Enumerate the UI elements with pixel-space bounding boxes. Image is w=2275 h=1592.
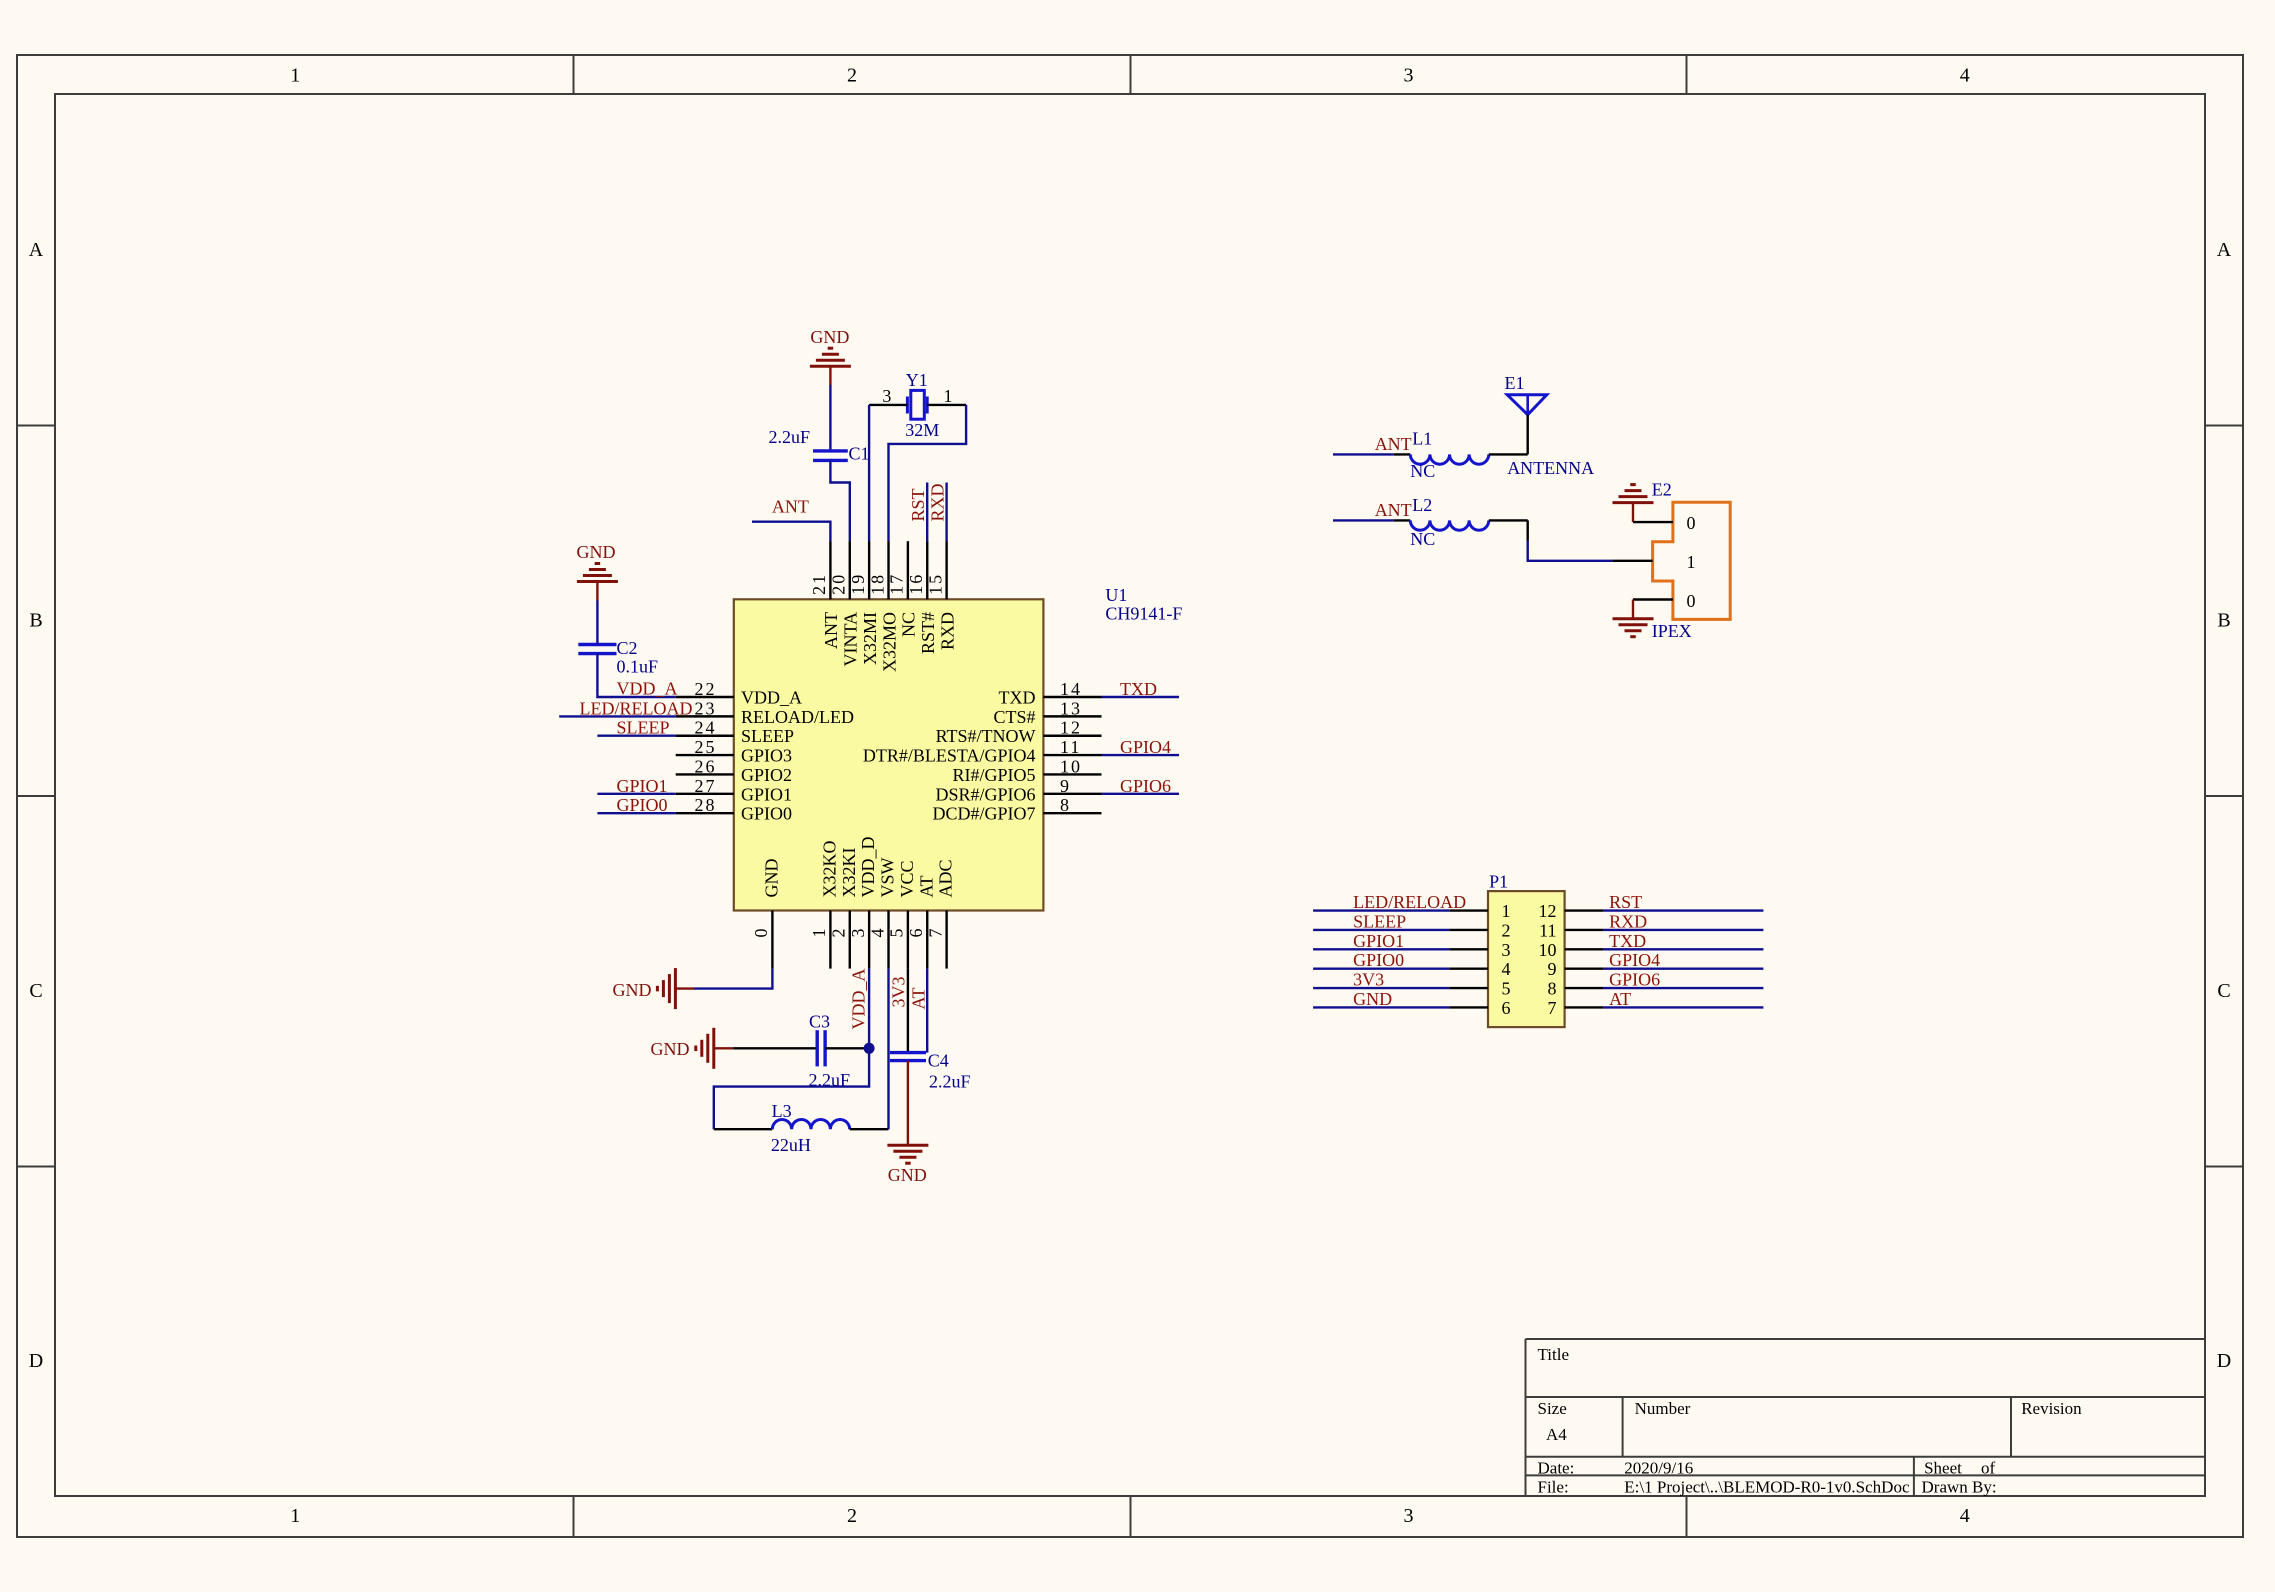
svg-text:17: 17 bbox=[887, 573, 907, 595]
wire C2 to U1 pin 22 (VDD_A) bbox=[597, 654, 675, 697]
svg-text:3: 3 bbox=[1502, 940, 1511, 960]
P1 pin 5 bbox=[1449, 979, 1510, 999]
connector P1 bbox=[1488, 872, 1565, 1028]
svg-text:GND: GND bbox=[613, 980, 652, 1000]
svg-text:GPIO1: GPIO1 bbox=[1353, 931, 1404, 951]
svg-text:Number: Number bbox=[1635, 1399, 1691, 1418]
svg-text:D: D bbox=[2217, 1350, 2231, 1372]
svg-text:C2: C2 bbox=[617, 638, 638, 658]
svg-text:14: 14 bbox=[1060, 679, 1082, 699]
svg-text:RST#: RST# bbox=[918, 612, 938, 654]
wire ANT net to U1 pin 21 bbox=[752, 522, 830, 542]
wire L2 to E2 pin 1 bbox=[1528, 541, 1613, 561]
svg-text:16: 16 bbox=[906, 573, 926, 595]
wire GPIO1 to U1 pin 27 bbox=[597, 793, 675, 795]
wire junction down to L3 left bbox=[714, 1048, 869, 1129]
svg-text:Size: Size bbox=[1538, 1399, 1567, 1418]
svg-text:NC: NC bbox=[899, 612, 919, 637]
svg-text:File:: File: bbox=[1538, 1478, 1569, 1497]
svg-text:SLEEP: SLEEP bbox=[617, 718, 670, 738]
svg-text:X32KO: X32KO bbox=[819, 841, 839, 898]
U1 pin 2 (X32KI) bbox=[829, 848, 859, 969]
svg-text:10: 10 bbox=[1539, 940, 1557, 960]
svg-text:8: 8 bbox=[1060, 795, 1071, 815]
svg-text:2.2uF: 2.2uF bbox=[768, 427, 810, 447]
capacitor C4 bbox=[890, 1050, 971, 1091]
E2 pin 0 (top) bbox=[1633, 513, 1696, 533]
svg-text:ANT: ANT bbox=[821, 612, 841, 649]
ground (at U1 pin 0) bbox=[613, 968, 695, 1009]
inductor L1 bbox=[1394, 429, 1528, 481]
svg-text:CH9141-F: CH9141-F bbox=[1105, 604, 1182, 624]
svg-text:0: 0 bbox=[1687, 513, 1696, 533]
wire GND to C3 left bbox=[733, 1047, 817, 1049]
svg-text:B: B bbox=[2217, 610, 2230, 632]
svg-text:C4: C4 bbox=[928, 1050, 949, 1070]
svg-text:19: 19 bbox=[848, 573, 868, 595]
U1 pin 3 (VDD_D) bbox=[848, 837, 878, 969]
svg-text:RXD: RXD bbox=[927, 483, 947, 521]
wire RST to U1 pin 16 bbox=[926, 483, 928, 542]
svg-text:RI#/GPIO5: RI#/GPIO5 bbox=[952, 765, 1035, 785]
svg-text:AT: AT bbox=[909, 987, 929, 1009]
svg-text:20: 20 bbox=[829, 573, 849, 595]
svg-text:GPIO0: GPIO0 bbox=[617, 795, 668, 815]
svg-text:GPIO4: GPIO4 bbox=[1609, 950, 1660, 970]
svg-text:ANTENNA: ANTENNA bbox=[1507, 458, 1594, 478]
wire 3V3 to P1 pin 5 bbox=[1313, 987, 1449, 989]
svg-text:28: 28 bbox=[695, 795, 717, 815]
P1 pin 4 bbox=[1449, 959, 1510, 979]
wire RXD from P1 pin 11 bbox=[1603, 929, 1763, 931]
U1 pin 0 (GND) bbox=[751, 859, 781, 969]
svg-text:GPIO0: GPIO0 bbox=[741, 804, 792, 824]
capacitor C1 bbox=[768, 427, 869, 464]
P1 pin 3 bbox=[1449, 940, 1510, 960]
wire GND to C2 bbox=[596, 601, 598, 645]
junction bbox=[864, 1043, 875, 1054]
svg-text:GND: GND bbox=[1353, 989, 1392, 1009]
wire GPIO6 from U1 pin 9 bbox=[1102, 793, 1180, 795]
svg-text:3V3: 3V3 bbox=[889, 977, 909, 1008]
svg-text:GND: GND bbox=[810, 327, 849, 347]
svg-text:GPIO6: GPIO6 bbox=[1120, 776, 1171, 796]
svg-text:23: 23 bbox=[695, 698, 717, 718]
wire U1 pin 3 (VDD_D) down to node bbox=[868, 969, 870, 1049]
U1 pin 18 (X32MO) bbox=[867, 541, 899, 672]
ground (E2) bbox=[1613, 480, 1672, 523]
wire ANT to L2 bbox=[1333, 519, 1394, 521]
svg-text:L1: L1 bbox=[1412, 429, 1432, 449]
U1 pin 15 (RXD) bbox=[925, 541, 957, 650]
svg-text:Y1: Y1 bbox=[906, 370, 928, 390]
svg-text:12: 12 bbox=[1539, 901, 1557, 921]
svg-text:RXD: RXD bbox=[1609, 911, 1647, 931]
svg-text:AT: AT bbox=[1609, 989, 1631, 1009]
svg-text:NC: NC bbox=[1410, 529, 1435, 549]
svg-text:2: 2 bbox=[847, 1505, 857, 1527]
svg-text:VINTA: VINTA bbox=[841, 612, 861, 667]
svg-text:10: 10 bbox=[1060, 756, 1082, 776]
svg-text:Title: Title bbox=[1538, 1345, 1570, 1364]
U1 pin 27 (GPIO1) bbox=[676, 776, 792, 805]
ground (IPEX) bbox=[1613, 600, 1692, 642]
U1 pin 9 (DSR#/GPIO6) bbox=[935, 776, 1101, 805]
svg-text:VDD_A: VDD_A bbox=[849, 969, 869, 1030]
wire C3 right to junction bbox=[825, 1047, 869, 1049]
svg-text:Revision: Revision bbox=[2021, 1399, 2082, 1418]
svg-text:GND: GND bbox=[888, 1165, 927, 1185]
U1 pin 8 (DCD#/GPIO7) bbox=[932, 795, 1101, 824]
svg-text:C: C bbox=[29, 980, 42, 1002]
U1 pin 5 (VCC) bbox=[887, 860, 917, 968]
U1 pin 10 (RI#/GPIO5) bbox=[952, 756, 1101, 785]
svg-text:VDD_A: VDD_A bbox=[617, 679, 678, 699]
svg-text:GPIO4: GPIO4 bbox=[1120, 737, 1171, 757]
wire TXD from U1 pin 14 bbox=[1102, 696, 1180, 698]
svg-text:D: D bbox=[29, 1350, 43, 1372]
svg-text:A: A bbox=[2217, 239, 2232, 261]
U1 pin 21 (ANT) bbox=[809, 541, 841, 649]
svg-text:IPEX: IPEX bbox=[1652, 621, 1692, 641]
P1 pin 12 bbox=[1539, 901, 1604, 921]
connector E2 (IPEX) bbox=[1653, 502, 1731, 619]
svg-text:GPIO0: GPIO0 bbox=[1353, 950, 1404, 970]
svg-text:RELOAD/LED: RELOAD/LED bbox=[741, 707, 854, 727]
svg-text:ADC: ADC bbox=[936, 859, 956, 897]
svg-text:C3: C3 bbox=[809, 1012, 830, 1032]
wire C1 to U1 pin 20 bbox=[830, 460, 849, 541]
svg-text:RST: RST bbox=[1609, 892, 1642, 912]
svg-text:A: A bbox=[29, 239, 44, 261]
svg-text:Sheet: Sheet bbox=[1924, 1459, 1962, 1478]
wire GPIO0 to U1 pin 28 bbox=[597, 812, 675, 814]
svg-text:GND: GND bbox=[761, 859, 781, 898]
U1 pin 13 (CTS#) bbox=[993, 698, 1101, 727]
svg-text:7: 7 bbox=[1548, 998, 1557, 1018]
P1 pin 2 bbox=[1449, 920, 1510, 940]
svg-text:6: 6 bbox=[906, 927, 926, 938]
svg-text:GPIO1: GPIO1 bbox=[617, 776, 668, 796]
svg-text:VDD_A: VDD_A bbox=[741, 688, 802, 708]
svg-text:U1: U1 bbox=[1105, 585, 1127, 605]
svg-text:2: 2 bbox=[829, 927, 849, 938]
svg-text:GND: GND bbox=[651, 1039, 690, 1059]
svg-text:DCD#/GPIO7: DCD#/GPIO7 bbox=[932, 804, 1035, 824]
wire GPIO6 from P1 pin 8 bbox=[1603, 987, 1763, 989]
svg-text:0.1uF: 0.1uF bbox=[617, 656, 659, 676]
wire U1 pin 0 GND bbox=[694, 969, 772, 989]
inductor L2 bbox=[1394, 495, 1528, 549]
U1 pin 28 (GPIO0) bbox=[676, 795, 792, 824]
wire GPIO1 to P1 pin 3 bbox=[1313, 948, 1449, 950]
svg-text:11: 11 bbox=[1060, 737, 1081, 757]
svg-text:AT: AT bbox=[916, 875, 936, 897]
U1 pin 19 (X32MI) bbox=[848, 541, 880, 665]
svg-text:3: 3 bbox=[848, 927, 868, 938]
svg-text:DTR#/BLESTA/GPIO4: DTR#/BLESTA/GPIO4 bbox=[863, 746, 1036, 766]
svg-text:3: 3 bbox=[1404, 65, 1414, 87]
svg-text:18: 18 bbox=[867, 573, 887, 595]
svg-text:GPIO3: GPIO3 bbox=[741, 746, 792, 766]
P1 pin 9 bbox=[1548, 959, 1604, 979]
svg-text:L3: L3 bbox=[772, 1101, 792, 1121]
svg-text:1: 1 bbox=[944, 386, 953, 406]
svg-text:11: 11 bbox=[1539, 920, 1556, 940]
wire ANT to L1 bbox=[1333, 453, 1394, 455]
svg-text:CTS#: CTS# bbox=[993, 707, 1035, 727]
P1 pin 7 bbox=[1548, 998, 1604, 1018]
svg-text:TXD: TXD bbox=[1609, 931, 1646, 951]
svg-text:4: 4 bbox=[1502, 959, 1511, 979]
svg-text:2: 2 bbox=[847, 65, 857, 87]
svg-text:ANT: ANT bbox=[1375, 500, 1412, 520]
U1 pin 20 (VINTA) bbox=[829, 541, 861, 666]
svg-text:3: 3 bbox=[882, 386, 891, 406]
svg-text:SLEEP: SLEEP bbox=[741, 726, 794, 746]
wire GND to P1 pin 6 bbox=[1313, 1006, 1449, 1008]
svg-text:13: 13 bbox=[1060, 698, 1082, 718]
U1 pin 12 (RTS#/TNOW) bbox=[936, 718, 1102, 747]
svg-text:VSW: VSW bbox=[878, 857, 898, 897]
wire AT from P1 pin 7 bbox=[1603, 1006, 1763, 1008]
svg-text:32M: 32M bbox=[905, 420, 939, 440]
antenna E1 bbox=[1505, 373, 1595, 478]
op-amp U1 body (IC CH9141-F) bbox=[734, 585, 1183, 911]
U1 pin 22 (VDD_A) bbox=[676, 679, 802, 708]
U1 pin 7 (ADC) bbox=[925, 859, 955, 968]
svg-text:22uH: 22uH bbox=[771, 1135, 811, 1155]
svg-text:GPIO2: GPIO2 bbox=[741, 765, 792, 785]
svg-text:LED/RELOAD: LED/RELOAD bbox=[580, 698, 693, 718]
wire RXD to U1 pin 15 bbox=[945, 483, 947, 542]
wire U1 pin 5 (VCC) down to C4 bbox=[907, 969, 909, 1053]
crystal Y1 bbox=[905, 370, 939, 440]
svg-text:of: of bbox=[1981, 1459, 1996, 1478]
wire SLEEP to U1 pin 24 bbox=[597, 735, 675, 737]
svg-text:X32MI: X32MI bbox=[860, 612, 880, 665]
svg-text:4: 4 bbox=[1960, 1505, 1970, 1527]
svg-text:ANT: ANT bbox=[772, 497, 809, 517]
svg-text:2: 2 bbox=[1502, 920, 1511, 940]
svg-text:X32MO: X32MO bbox=[879, 612, 899, 672]
U1 pin 14 (TXD) bbox=[999, 679, 1102, 708]
svg-text:GND: GND bbox=[577, 542, 616, 562]
svg-text:TXD: TXD bbox=[999, 688, 1036, 708]
svg-text:A4: A4 bbox=[1546, 1425, 1567, 1444]
capacitor C2 bbox=[578, 638, 658, 676]
svg-text:5: 5 bbox=[887, 927, 907, 938]
capacitor C3 bbox=[809, 1012, 851, 1091]
svg-text:1: 1 bbox=[1687, 552, 1696, 572]
U1 pin 23 (RELOAD/LED) bbox=[676, 698, 854, 727]
svg-text:21: 21 bbox=[809, 573, 829, 595]
svg-text:6: 6 bbox=[1502, 998, 1511, 1018]
svg-text:15: 15 bbox=[925, 573, 945, 595]
svg-text:4: 4 bbox=[1960, 65, 1970, 87]
svg-text:VCC: VCC bbox=[897, 860, 917, 897]
svg-text:LED/RELOAD: LED/RELOAD bbox=[1353, 892, 1466, 912]
svg-text:9: 9 bbox=[1060, 776, 1071, 796]
svg-text:SLEEP: SLEEP bbox=[1353, 911, 1406, 931]
wire AT from U1 pin 6 bbox=[926, 969, 928, 1053]
ground (below C4) bbox=[887, 1061, 928, 1185]
svg-text:TXD: TXD bbox=[1120, 679, 1157, 699]
U1 pin 16 (RST#) bbox=[906, 541, 938, 654]
U1 pin 17 (NC) bbox=[887, 541, 919, 637]
svg-text:1: 1 bbox=[290, 65, 300, 87]
P1 pin 1 bbox=[1449, 901, 1510, 921]
svg-text:1: 1 bbox=[809, 927, 829, 938]
P1 pin 8 bbox=[1548, 979, 1604, 999]
wire SLEEP to P1 pin 2 bbox=[1313, 929, 1449, 931]
E2 pin 0 (bottom) bbox=[1633, 591, 1696, 611]
wire Y1 pin 3 to U1 pin 19 bbox=[868, 405, 870, 542]
E2 pin 1 bbox=[1613, 552, 1696, 572]
P1 pin 11 bbox=[1539, 920, 1603, 940]
svg-text:C: C bbox=[2217, 980, 2230, 1002]
svg-text:0: 0 bbox=[1687, 591, 1696, 611]
U1 pin 25 (GPIO3) bbox=[676, 737, 792, 766]
ground (above C2) bbox=[577, 542, 618, 601]
svg-text:5: 5 bbox=[1502, 979, 1511, 999]
wire TXD from P1 pin 10 bbox=[1603, 948, 1763, 950]
U1 pin 4 (VSW) bbox=[867, 857, 897, 968]
svg-text:E1: E1 bbox=[1505, 373, 1525, 393]
svg-text:27: 27 bbox=[695, 776, 717, 796]
U1 pin 24 (SLEEP) bbox=[676, 718, 794, 747]
wire GPIO4 from P1 pin 9 bbox=[1603, 968, 1763, 970]
svg-text:C1: C1 bbox=[849, 444, 870, 464]
svg-text:P1: P1 bbox=[1489, 872, 1508, 892]
wire LED/RELOAD to U1 pin 23 bbox=[559, 715, 676, 717]
ground (above C1) bbox=[810, 327, 851, 385]
svg-text:RST: RST bbox=[908, 488, 928, 521]
svg-text:Date:: Date: bbox=[1538, 1459, 1575, 1478]
svg-text:22: 22 bbox=[695, 679, 717, 699]
svg-text:L2: L2 bbox=[1412, 495, 1432, 515]
svg-text:E2: E2 bbox=[1652, 480, 1672, 500]
svg-text:RTS#/TNOW: RTS#/TNOW bbox=[936, 726, 1036, 746]
svg-text:NC: NC bbox=[1410, 461, 1435, 481]
svg-text:25: 25 bbox=[695, 737, 717, 757]
svg-text:0: 0 bbox=[751, 927, 771, 938]
svg-text:E:\1 Project\..\BLEMOD-R0-1v0.: E:\1 Project\..\BLEMOD-R0-1v0.SchDoc bbox=[1624, 1478, 1910, 1497]
svg-text:B: B bbox=[29, 610, 42, 632]
wire Y1 pin 1 to U1 pin 18 bbox=[889, 405, 967, 542]
Y1 pin 3 lead bbox=[869, 404, 907, 406]
svg-text:X32KI: X32KI bbox=[839, 848, 859, 898]
svg-text:24: 24 bbox=[695, 718, 717, 738]
svg-text:DSR#/GPIO6: DSR#/GPIO6 bbox=[935, 784, 1035, 804]
U1 pin 6 (AT) bbox=[906, 875, 936, 968]
svg-text:GPIO1: GPIO1 bbox=[741, 784, 792, 804]
U1 pin 11 (DTR#/BLESTA/GPIO4) bbox=[863, 737, 1102, 766]
svg-text:4: 4 bbox=[867, 927, 887, 938]
P1 pin 6 bbox=[1449, 998, 1510, 1018]
svg-text:1: 1 bbox=[1502, 901, 1511, 921]
inductor L3 bbox=[714, 1101, 889, 1155]
svg-text:RXD: RXD bbox=[937, 612, 957, 650]
wire GPIO0 to P1 pin 4 bbox=[1313, 968, 1449, 970]
svg-text:7: 7 bbox=[925, 927, 945, 938]
ground (at C3) bbox=[651, 1028, 734, 1069]
wire GPIO4 from U1 pin 11 bbox=[1102, 754, 1180, 756]
svg-text:VDD_D: VDD_D bbox=[858, 837, 878, 898]
svg-text:8: 8 bbox=[1548, 979, 1557, 999]
svg-text:26: 26 bbox=[695, 756, 717, 776]
wire GND to C1 bbox=[829, 385, 831, 451]
Y1 pin 1 lead bbox=[927, 404, 966, 406]
svg-text:ANT: ANT bbox=[1375, 434, 1412, 454]
svg-text:2.2uF: 2.2uF bbox=[929, 1072, 971, 1092]
svg-text:9: 9 bbox=[1548, 959, 1557, 979]
svg-text:Drawn By:: Drawn By: bbox=[1922, 1478, 1997, 1497]
svg-text:2020/9/16: 2020/9/16 bbox=[1624, 1459, 1693, 1478]
svg-text:12: 12 bbox=[1060, 718, 1082, 738]
P1 pin 10 bbox=[1539, 940, 1604, 960]
wire LED/RELOAD to P1 pin 1 bbox=[1313, 909, 1449, 911]
svg-text:3V3: 3V3 bbox=[1353, 970, 1384, 990]
svg-text:3: 3 bbox=[1404, 1505, 1414, 1527]
wire RST from P1 pin 12 bbox=[1603, 909, 1763, 911]
U1 pin 1 (X32KO) bbox=[809, 841, 839, 969]
svg-text:GPIO6: GPIO6 bbox=[1609, 970, 1660, 990]
wire L3 right up to U1 pin 4 (VSW) bbox=[887, 969, 889, 1130]
svg-text:1: 1 bbox=[290, 1505, 300, 1527]
U1 pin 26 (GPIO2) bbox=[676, 756, 792, 785]
